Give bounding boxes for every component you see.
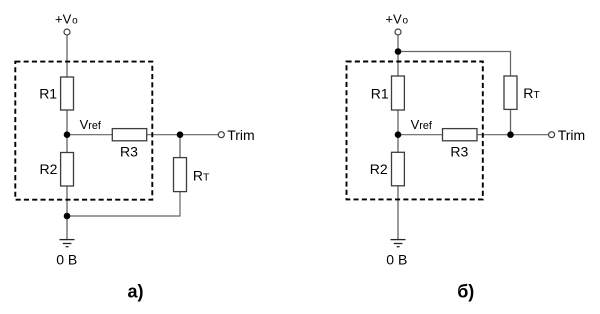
- wire Vref to R3 (left): [67, 134, 112, 136]
- ground symbol (left): [60, 240, 75, 247]
- resistor RT (left): [174, 158, 187, 192]
- wire RT to bottom return (left): [67, 192, 180, 216]
- svg-text:0 В: 0 В: [56, 251, 77, 267]
- resistor R2 (right): [392, 152, 405, 186]
- resistor RT (right): [504, 76, 517, 109]
- node ground junction (left): [64, 213, 71, 220]
- svg-text:Trim: Trim: [227, 127, 254, 143]
- node Vref (right): [395, 131, 402, 138]
- resistor R2 (left): [61, 153, 74, 187]
- wire R1 to R2 (right): [397, 110, 399, 153]
- svg-text:а): а): [128, 281, 144, 301]
- wire +Vo to R1 (left): [66, 36, 68, 77]
- wire R3 to Trim terminal (right): [477, 134, 548, 136]
- svg-text:RT: RT: [193, 168, 210, 184]
- node Trim junction (left): [177, 131, 184, 138]
- svg-text:Trim: Trim: [558, 127, 585, 143]
- terminal Trim (left): [218, 132, 224, 138]
- node Vref (left): [64, 131, 71, 138]
- svg-text:R3: R3: [450, 143, 468, 159]
- wire R2 to ground (left): [66, 186, 68, 240]
- svg-text:R1: R1: [39, 85, 57, 101]
- wire top node to RT (right): [398, 52, 511, 77]
- svg-text:R2: R2: [370, 161, 388, 177]
- resistor R1 (right): [392, 76, 405, 110]
- terminal +Vo (left): [64, 29, 70, 35]
- resistor R3 (left): [112, 129, 146, 141]
- svg-text:Vref: Vref: [80, 117, 102, 132]
- node top junction (right): [395, 48, 402, 55]
- svg-text:R1: R1: [371, 86, 389, 102]
- node Trim junction (right): [507, 131, 514, 138]
- terminal Trim (right): [549, 132, 555, 138]
- svg-text:б): б): [457, 281, 474, 301]
- wire +Vo to R1 (right): [397, 36, 399, 76]
- svg-text:0 В: 0 В: [386, 251, 407, 267]
- svg-text:+Vo: +Vo: [55, 11, 78, 26]
- svg-text:+Vo: +Vo: [385, 11, 408, 26]
- svg-text:Vref: Vref: [411, 117, 433, 132]
- wire R1 to R2 (left): [66, 110, 68, 153]
- svg-text:R3: R3: [120, 143, 138, 159]
- resistor R3 (right): [443, 129, 478, 141]
- wire R3 to Trim terminal (left): [147, 134, 218, 136]
- terminal +Vo (right): [395, 29, 401, 35]
- resistor R1 (left): [61, 77, 74, 110]
- ground symbol (right): [391, 240, 406, 247]
- svg-text:R2: R2: [40, 161, 58, 177]
- svg-text:RT: RT: [523, 85, 540, 101]
- wire Trim node to RT (left): [179, 135, 181, 158]
- wire Vref to R3 (right): [398, 134, 443, 136]
- dashed box (left divider): [15, 62, 152, 200]
- wire R2 to ground (right): [397, 186, 399, 240]
- wire RT to Trim node (right): [510, 109, 512, 134]
- dashed box (right divider): [347, 62, 483, 200]
